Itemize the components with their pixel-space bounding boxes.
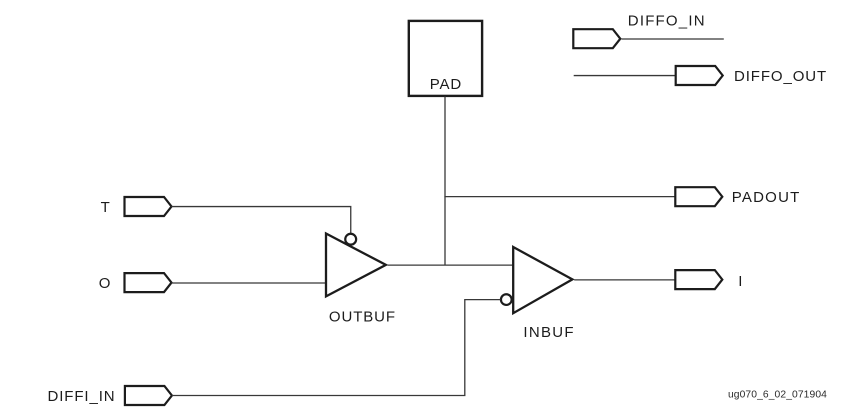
svg-text:DIFFI_IN: DIFFI_IN: [48, 388, 116, 405]
svg-text:ug070_6_02_071904: ug070_6_02_071904: [728, 390, 827, 401]
wire O to OUTBUF input: [172, 282, 327, 284]
wire INBUF output to I: [574, 279, 675, 281]
buffer INBUF: [513, 247, 572, 313]
svg-text:INBUF: INBUF: [523, 324, 575, 341]
port T: [125, 197, 172, 216]
port PADOUT: [675, 187, 722, 206]
port DIFFO_OUT: [676, 66, 723, 85]
svg-text:OUTBUF: OUTBUF: [329, 309, 396, 326]
wire from PAD down to OUTBUF output net: [444, 97, 446, 266]
bubble INBUF enable: [501, 294, 512, 305]
svg-text:PADOUT: PADOUT: [732, 189, 801, 206]
wire to DIFFO_OUT: [574, 75, 676, 77]
port O: [125, 273, 172, 292]
wire DIFFI_IN to INBUF bubble: [172, 300, 501, 396]
bubble OUTBUF enable: [345, 234, 356, 245]
pad box PAD: [409, 21, 482, 96]
svg-text:I: I: [738, 273, 743, 290]
port DIFFI_IN: [125, 386, 172, 405]
svg-text:T: T: [101, 199, 111, 216]
svg-text:DIFFO_IN: DIFFO_IN: [628, 13, 706, 30]
svg-text:O: O: [99, 275, 112, 292]
svg-text:DIFFO_OUT: DIFFO_OUT: [734, 68, 827, 85]
port I: [675, 270, 722, 289]
wire OUTBUF output to INBUF input: [388, 264, 514, 266]
port DIFFO_IN: [573, 29, 620, 48]
buffer OUTBUF: [326, 234, 386, 297]
wire node to PADOUT: [444, 196, 675, 198]
wire from DIFFO_IN: [622, 38, 724, 40]
svg-text:PAD: PAD: [430, 76, 462, 93]
wire T to OUTBUF enable bubble: [172, 207, 351, 234]
